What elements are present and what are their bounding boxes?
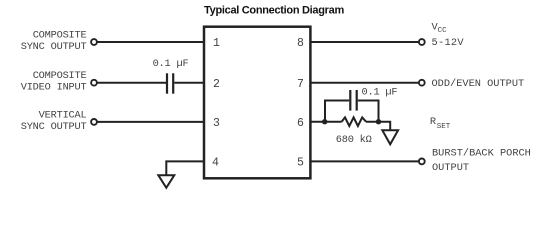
node junction A (pin 6) — [322, 119, 327, 124]
wire pin 8 — [311, 41, 419, 43]
node junction B — [376, 119, 381, 124]
label RSET — [430, 116, 451, 131]
svg-text:5: 5 — [297, 157, 304, 170]
capacitor C2 branch wire left — [325, 101, 349, 122]
terminal pin 5 — [419, 159, 425, 165]
terminal pin 2 — [91, 80, 97, 86]
svg-text:VIDEO INPUT: VIDEO INPUT — [21, 82, 87, 94]
capacitor C2 branch wire right — [358, 101, 379, 122]
terminal pin 3 — [91, 119, 97, 125]
label COMPOSITE VIDEO INPUT — [21, 70, 87, 94]
terminal pin 8 — [419, 39, 425, 45]
svg-text:0.1 µF: 0.1 µF — [153, 58, 189, 70]
wire resistor to ground — [366, 122, 390, 131]
wire pin 2 right — [174, 82, 204, 84]
label VCC — [432, 21, 448, 35]
ground (pin 6 network) — [382, 130, 398, 144]
ground (pin 4) — [158, 175, 174, 188]
svg-text:BURST/BACK PORCH: BURST/BACK PORCH — [432, 148, 531, 160]
svg-text:1: 1 — [213, 37, 220, 50]
svg-text:CC: CC — [438, 27, 448, 35]
svg-text:2: 2 — [213, 78, 220, 91]
capacitor C2 0.1 uF — [350, 90, 356, 111]
terminal pin 1 — [91, 39, 97, 45]
svg-text:3: 3 — [213, 117, 220, 130]
label VERTICAL SYNC OUTPUT — [21, 110, 87, 134]
svg-text:Typical Connection Diagram: Typical Connection Diagram — [204, 4, 344, 16]
svg-text:6: 6 — [297, 117, 304, 130]
wire pin 5 — [311, 160, 419, 162]
svg-text:5-12V: 5-12V — [432, 37, 465, 49]
wire pin 3 — [97, 121, 204, 123]
svg-text:VERTICAL: VERTICAL — [39, 110, 87, 122]
terminal pin 7 — [419, 80, 425, 86]
capacitor C1 0.1 uF — [167, 73, 173, 93]
label BURST/BACK PORCH OUTPUT — [432, 148, 531, 174]
svg-text:SET: SET — [437, 123, 451, 131]
svg-text:COMPOSITE: COMPOSITE — [33, 29, 87, 41]
label COMPOSITE SYNC OUTPUT — [21, 29, 87, 53]
resistor R1 680 kOhm — [342, 117, 366, 126]
svg-text:4: 4 — [212, 157, 219, 170]
svg-text:680 kΩ: 680 kΩ — [336, 134, 372, 146]
svg-text:0.1 µF: 0.1 µF — [362, 87, 398, 99]
svg-text:SYNC OUTPUT: SYNC OUTPUT — [21, 41, 87, 53]
svg-text:ODD/EVEN OUTPUT: ODD/EVEN OUTPUT — [432, 78, 525, 90]
svg-text:8: 8 — [297, 37, 304, 50]
svg-text:7: 7 — [297, 78, 304, 91]
wire pin 7 — [311, 82, 419, 84]
wire pin 6 — [311, 121, 342, 123]
svg-text:SYNC OUTPUT: SYNC OUTPUT — [21, 121, 87, 133]
wire pin 2 left — [97, 82, 166, 84]
svg-text:OUTPUT: OUTPUT — [432, 162, 469, 174]
svg-text:R: R — [430, 116, 436, 128]
IC U1 (sync separator) — [204, 27, 310, 179]
wire pin 4 — [166, 161, 204, 175]
svg-text:COMPOSITE: COMPOSITE — [33, 70, 87, 82]
wire pin 1 — [97, 41, 204, 43]
